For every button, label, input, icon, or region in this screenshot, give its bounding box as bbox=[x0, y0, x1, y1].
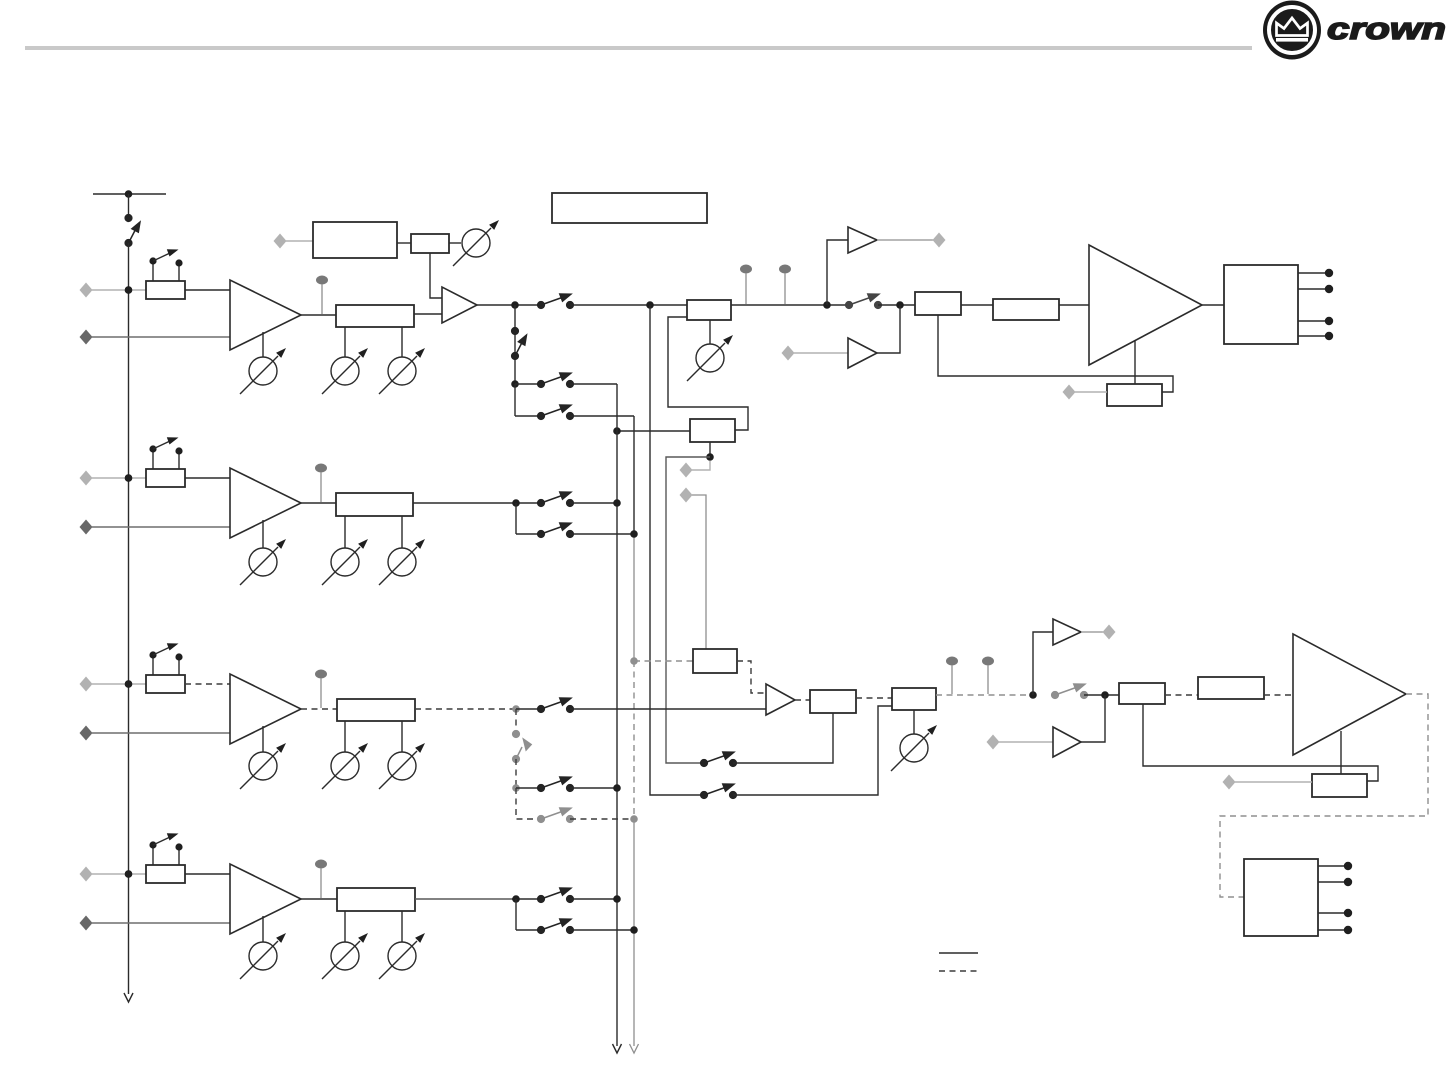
block: ch1 output relay bbox=[1224, 265, 1298, 344]
arrow: bus B continues bbox=[630, 1044, 639, 1053]
node: error amp input junction bbox=[896, 301, 904, 309]
pin: ch1 output terminal 4 bbox=[1298, 332, 1333, 340]
wire: ch2 EQ to routing bbox=[413, 502, 541, 504]
block: lower gain stage bbox=[1119, 683, 1165, 704]
wire: error amp to driver bbox=[961, 304, 993, 306]
op-amp U5 ch1 aux buffer bbox=[848, 338, 877, 368]
wire: ch1 row B connector bbox=[515, 415, 541, 417]
wire: aux bus from ch1 tap bbox=[650, 305, 700, 795]
potentiometer P7 ch2 EQ low bbox=[322, 516, 368, 585]
node: lower driver junction bbox=[1101, 691, 1109, 699]
connector: ch4 balanced input (diamond) bbox=[80, 867, 93, 882]
wire: link bus top tick bbox=[93, 193, 166, 195]
wire: monitor branch up bbox=[827, 240, 848, 305]
connector: sidechain tap A (diamond) bbox=[680, 463, 693, 478]
block: lower error amp bbox=[892, 688, 936, 710]
wire: summing amp to ramp block (dashed) bbox=[795, 699, 810, 701]
op-amp U10 lower monitor buffer bbox=[1053, 619, 1081, 645]
node: bus A ch4 join bbox=[613, 895, 621, 903]
block: ch4 input gain bbox=[146, 865, 185, 883]
wire: ch1 row A connector bbox=[515, 383, 541, 385]
potentiometer P8 ch2 EQ high bbox=[379, 516, 425, 585]
node: bus A ch3 join bbox=[613, 784, 621, 792]
node: ch2 link tap bbox=[125, 474, 133, 482]
block: ch1 output sense bbox=[1107, 384, 1162, 406]
wire: ch1 gain block to amp bbox=[185, 289, 230, 291]
wire: ramp to error amp (dashed) bbox=[856, 697, 892, 699]
switch S19 aux select bbox=[700, 784, 736, 799]
wire: sense ref feed bbox=[1235, 781, 1312, 783]
potentiometer P2 ch1 EQ low bbox=[322, 327, 368, 394]
pin: ch1 output terminal 2 bbox=[1298, 285, 1333, 293]
crown logo emblem bbox=[1263, 1, 1321, 60]
wire: ch2 to bus B bbox=[570, 533, 634, 535]
pin: lower output terminal 1 bbox=[1318, 862, 1352, 870]
block: ch4 EQ filter bbox=[337, 888, 415, 911]
op-amp U8 ch4 input amp bbox=[230, 864, 301, 934]
legend: solid line sample bbox=[939, 952, 978, 954]
wire: ch1 feedback loop bbox=[938, 315, 1173, 392]
potentiometer P4 comp threshold bbox=[453, 220, 499, 266]
op-amp U1 ch1 input amp bbox=[230, 280, 301, 350]
node: ch1 link tap bbox=[125, 286, 133, 294]
potentiometer P14 ch4 EQ high bbox=[379, 911, 425, 979]
wire: mix bus B dashed section bbox=[633, 661, 635, 819]
wire: lower monitor to connector bbox=[1081, 631, 1103, 633]
wire: ch4 column bbox=[515, 899, 517, 930]
wire: ch3 input to gain block bbox=[92, 683, 146, 685]
connector: ch1 direct input (diamond) bbox=[80, 330, 93, 345]
wire: ch3 to bus B (dashed) bbox=[570, 818, 634, 820]
wire: ch3 row 1 connector bbox=[516, 708, 541, 710]
op-amp U2 ch1 summing buffer bbox=[442, 287, 477, 323]
wire: lower feedback loop bbox=[1143, 704, 1378, 781]
wire: ch1 to bus A bbox=[570, 383, 617, 385]
switch S11 ch3 direct route bbox=[537, 698, 573, 713]
test point TP7 bbox=[946, 657, 958, 695]
wire: tap B feed down to lower limiter bbox=[692, 495, 706, 649]
switch S14 ch3 to bus B (gray) bbox=[537, 808, 573, 823]
wire: sidechain to ramp stem bbox=[733, 713, 833, 763]
pin: ch1 output terminal 3 bbox=[1298, 317, 1333, 325]
wire: tap A feed bbox=[692, 461, 710, 470]
block: ch2 input gain bbox=[146, 469, 185, 487]
wire: aux in to buffer bbox=[794, 352, 848, 354]
potentiometer P1 ch1 level bbox=[240, 332, 286, 394]
wire: limiter output run bbox=[731, 304, 849, 306]
wire: ch3 to bus A bbox=[570, 787, 617, 789]
wire: ch2 direct input to amp bbox=[92, 526, 230, 528]
wire: comp output to summing amp bbox=[430, 253, 442, 298]
wire: mix bus A bbox=[616, 384, 618, 1046]
potentiometer P11 ch3 EQ high bbox=[379, 721, 425, 789]
switch S3 ch1 output enable bbox=[845, 294, 881, 309]
node: lower monitor tap bbox=[1029, 691, 1037, 699]
wire: ch2 row B connector bbox=[516, 533, 541, 535]
op-amp U3 ch1 power amplifier bbox=[1089, 245, 1202, 365]
block: ch1 EQ filter bbox=[336, 305, 414, 327]
wire: driver to power amp bbox=[1059, 304, 1089, 306]
switch S10 ch3 sensitivity bbox=[149, 643, 182, 675]
pin: lower output terminal 2 bbox=[1318, 878, 1352, 886]
test point TP2 bbox=[740, 265, 752, 305]
wire: sidechain link to ch3 section bbox=[666, 457, 710, 763]
block: lower ramp generator bbox=[810, 690, 856, 713]
connector: lower aux in (diamond) bbox=[987, 735, 1000, 750]
block: ch1 sidechain detector bbox=[690, 419, 735, 442]
wire: aux to error amp feed bbox=[733, 706, 892, 795]
wire: ch3 gain block to amp (dashed) bbox=[185, 683, 230, 685]
wire: EQ out to summing amp bbox=[414, 313, 442, 315]
op-amp U4 ch1 monitor buffer bbox=[848, 227, 877, 253]
wire: compressor to attack block bbox=[397, 242, 411, 244]
test point TP8 bbox=[982, 657, 994, 695]
node: ch2 link tap (top coat) bbox=[125, 474, 133, 482]
potentiometer P5 limiter threshold bbox=[687, 320, 733, 381]
node: bus A detector tap bbox=[613, 427, 621, 435]
wire: ch3 column dashed mid bbox=[515, 759, 517, 788]
switch S13 ch3 to bus A bbox=[537, 777, 573, 792]
wire: link bus vertical bbox=[128, 243, 130, 994]
block: ch1 limiter bbox=[687, 300, 731, 320]
wire: detector output stem bbox=[709, 442, 711, 457]
node: ch1 bus row junction bbox=[511, 380, 519, 388]
wire: ch4 to bus A bbox=[570, 898, 617, 900]
block: lower limiter bbox=[693, 649, 737, 673]
arrow: bus A continues bbox=[613, 1044, 622, 1053]
switch S12 ch3 bus feed (gray) bbox=[512, 730, 531, 762]
wire: ch4 input to gain block bbox=[92, 873, 146, 875]
wire: lower limiter to summing amp (dashed) bbox=[737, 661, 766, 693]
wire: ch4 direct input to amp bbox=[92, 922, 230, 924]
wire: monitor buffer to connector bbox=[877, 239, 934, 241]
pin: ch1 output terminal 1 bbox=[1298, 269, 1333, 277]
test point TP6 bbox=[315, 860, 327, 899]
wire: lower PA sense stem bbox=[1340, 731, 1342, 774]
switch S0 link enable bbox=[125, 214, 140, 246]
arrow: link bus continues bbox=[124, 993, 133, 1002]
potentiometer P6 ch2 level bbox=[240, 520, 286, 585]
switch S17 ch4 to bus B bbox=[537, 919, 573, 934]
block: ch1 input gain bbox=[146, 281, 185, 299]
wire: ch4 gain block to amp bbox=[185, 873, 230, 875]
connector: lower sense ref (diamond) bbox=[1223, 775, 1236, 790]
op-amp U7 ch3 input amp bbox=[230, 674, 301, 744]
wire: ch2 input to gain block bbox=[92, 477, 146, 479]
block: ch1 driver stage bbox=[993, 299, 1059, 320]
wire: ch1 to bus B bbox=[570, 415, 634, 417]
pin: lower output terminal 3 bbox=[1318, 909, 1352, 917]
wire: ch3 column dashed lower bbox=[516, 788, 541, 819]
wire: mix bus B lower (gray) bbox=[633, 819, 635, 1046]
wire: ch1 input to gain block bbox=[92, 289, 146, 291]
connector: ch1 sense ref (diamond) bbox=[1063, 385, 1076, 400]
node: ch4 link tap bbox=[125, 870, 133, 878]
block: ch2 EQ filter bbox=[336, 493, 413, 516]
wire: ch4 EQ to routing bbox=[415, 898, 516, 900]
block: ch3 EQ filter bbox=[337, 699, 415, 721]
wire: link bus upper segment bbox=[128, 194, 130, 218]
switch S9 ch2 to bus B bbox=[537, 523, 573, 538]
connector: ch2 direct input (diamond) bbox=[80, 520, 93, 535]
wire: aux buffer output bbox=[877, 305, 900, 353]
node: ch3 routing tap (gray) bbox=[512, 705, 520, 713]
wire: ch4 row B connector bbox=[516, 929, 541, 931]
switch S18 sidechain select bbox=[700, 752, 736, 767]
wire: attack block to pot bbox=[449, 242, 461, 244]
node: ch1 aux bus tap bbox=[646, 301, 654, 309]
potentiometer P15 lower limiter threshold bbox=[891, 710, 937, 771]
wire: lower PA output loop (dashed) bbox=[1220, 694, 1428, 897]
node: link bus top junction bbox=[125, 190, 133, 198]
wire: ch3 amp to EQ (dashed) bbox=[301, 708, 337, 710]
wire: to error amp bbox=[878, 304, 915, 306]
wire: mix bus B upper bbox=[633, 416, 635, 534]
wire: ch2 column bbox=[515, 503, 517, 534]
svg-text:crown: crown bbox=[1327, 11, 1446, 46]
wire: ch3 EQ to routing (dashed) bbox=[415, 708, 516, 710]
switch S8 ch2 to bus A bbox=[537, 492, 573, 507]
potentiometer P3 ch1 EQ high bbox=[379, 327, 425, 394]
block: ch1 comp attack bbox=[411, 234, 449, 253]
block: ch3 input gain bbox=[146, 675, 185, 693]
wire: gain to driver (dashed) bbox=[1165, 694, 1198, 696]
node: bus B lower limiter tap (gray) bbox=[630, 657, 638, 665]
legend: dashed line sample bbox=[939, 970, 978, 972]
wire: ch4 routing feed bbox=[512, 898, 541, 900]
block: ch1 compressor bbox=[313, 222, 397, 258]
wire: ch4 amp to EQ bbox=[301, 898, 337, 900]
wire: ch1 sense ref feed bbox=[1075, 391, 1107, 393]
wire: ch2 to bus A bbox=[570, 502, 617, 504]
node: bus B ch2 join bbox=[630, 530, 638, 538]
test point TP5 bbox=[315, 670, 327, 709]
wire: mix bus B middle (gray) bbox=[633, 534, 635, 661]
connector: ch4 direct input (diamond) bbox=[80, 916, 93, 931]
wire: ch3 to lower summing amp bbox=[570, 708, 766, 710]
node: ch2 routing tap bbox=[512, 499, 520, 507]
wire: ch1 routing column bbox=[514, 305, 516, 384]
connector: ch1 monitor out (diamond) bbox=[933, 233, 946, 248]
wire: ch1 PA sense stem bbox=[1134, 341, 1136, 384]
connector: ch1 balanced input (diamond) bbox=[80, 283, 93, 298]
potentiometer P12 ch4 level bbox=[240, 916, 286, 979]
block: ch1 error amp bbox=[915, 292, 961, 315]
node: ch3 bus row junction (gray) bbox=[512, 784, 520, 792]
test point TP1 bbox=[316, 276, 328, 315]
connector: ch3 balanced input (diamond) bbox=[80, 677, 93, 692]
wire: ch1 to limiter bbox=[570, 304, 687, 306]
wire: comp input feed bbox=[286, 240, 313, 242]
wire: ch2 amp to EQ bbox=[301, 502, 336, 504]
switch S4 ch1 bus feed bbox=[511, 327, 526, 359]
potentiometer P9 ch3 level bbox=[240, 726, 286, 789]
wire: lower aux to buffer bbox=[999, 741, 1053, 743]
switch S7 ch2 sensitivity bbox=[149, 437, 182, 469]
potentiometer P13 ch4 EQ low bbox=[322, 911, 368, 979]
wire: ch2 gain block to amp bbox=[185, 477, 230, 479]
switch S2 ch1 direct route bbox=[537, 294, 573, 309]
block: lower output sense bbox=[1312, 774, 1367, 797]
op-amp U6 ch2 input amp bbox=[230, 468, 301, 538]
op-amp U12 lower power amplifier bbox=[1293, 634, 1406, 755]
wire: driver to power amp (dashed) bbox=[1264, 694, 1293, 696]
pin: lower output terminal 4 bbox=[1318, 926, 1352, 934]
connector: ch1 aux in (diamond) bbox=[782, 346, 795, 361]
wire: lower monitor branch up bbox=[1033, 632, 1053, 695]
wire: ch4 to bus B bbox=[570, 929, 634, 931]
connector: ch3 direct input (diamond) bbox=[80, 726, 93, 741]
node: ch3 link tap (top coat) bbox=[125, 680, 133, 688]
wire: bus A to detector bbox=[617, 430, 690, 432]
wire: ch3 direct input to amp bbox=[92, 732, 230, 734]
connector: lower monitor out (diamond) bbox=[1103, 625, 1116, 640]
switch S5 ch1 to bus A bbox=[537, 373, 573, 388]
switch S20 lower output enable (gray) bbox=[1051, 684, 1087, 699]
op-amp U9 lower summing amp bbox=[766, 684, 795, 715]
wire: ch3 row A connector bbox=[516, 787, 541, 789]
wire: ch1 direct input to amp inverting in bbox=[92, 336, 230, 338]
op-amp U11 lower aux buffer bbox=[1053, 727, 1081, 757]
block: lower output relay bbox=[1244, 859, 1318, 936]
node: ch3 link tap bbox=[125, 680, 133, 688]
switch S1A ch1 sensitivity bbox=[149, 249, 182, 281]
block: lower driver stage bbox=[1198, 677, 1264, 699]
node: detector output bbox=[706, 453, 714, 461]
wire: to lower driver junction bbox=[1084, 694, 1119, 696]
connector: ch1 comp input (diamond) bbox=[274, 234, 287, 249]
node: bus B ch3 join (gray) bbox=[630, 815, 638, 823]
node: bus B ch4 join bbox=[630, 926, 638, 934]
connector: sidechain tap B (diamond) bbox=[680, 488, 693, 503]
node: ch1 routing tap bbox=[511, 301, 519, 309]
wire: ch3 column dashed upper bbox=[515, 709, 517, 734]
switch S6 ch1 to bus B bbox=[537, 405, 573, 420]
potentiometer P10 ch3 EQ low bbox=[322, 721, 368, 789]
block: title placard bbox=[552, 193, 707, 223]
node: ch4 routing tap bbox=[512, 895, 520, 903]
node: ch1 link tap (top coat) bbox=[125, 286, 133, 294]
wire: sidechain switch row 1 bbox=[700, 762, 704, 764]
node: monitor tap bbox=[823, 301, 831, 309]
test point TP3 bbox=[779, 265, 791, 305]
connector: ch2 balanced input (diamond) bbox=[80, 471, 93, 486]
wire: summing amp output bbox=[477, 304, 541, 306]
wire: ch1 amp to EQ bbox=[301, 314, 336, 316]
wire: lower aux buffer output bbox=[1081, 695, 1105, 742]
wire: limiter sidechain loop bbox=[668, 317, 748, 430]
node: ch4 link tap (top coat) bbox=[125, 870, 133, 878]
switch S16 ch4 to bus A bbox=[537, 888, 573, 903]
header rule bbox=[25, 46, 1252, 50]
wire: lower main line (dashed) bbox=[936, 694, 1033, 696]
test point TP4 bbox=[315, 464, 327, 503]
wire: ch1 column to row B bbox=[514, 384, 516, 416]
wire: power amp to output relay bbox=[1202, 304, 1224, 306]
node: bus A ch2 join bbox=[613, 499, 621, 507]
wire: bus B to lower limiter (dashed) bbox=[634, 660, 693, 662]
switch S15 ch4 sensitivity bbox=[149, 833, 182, 865]
